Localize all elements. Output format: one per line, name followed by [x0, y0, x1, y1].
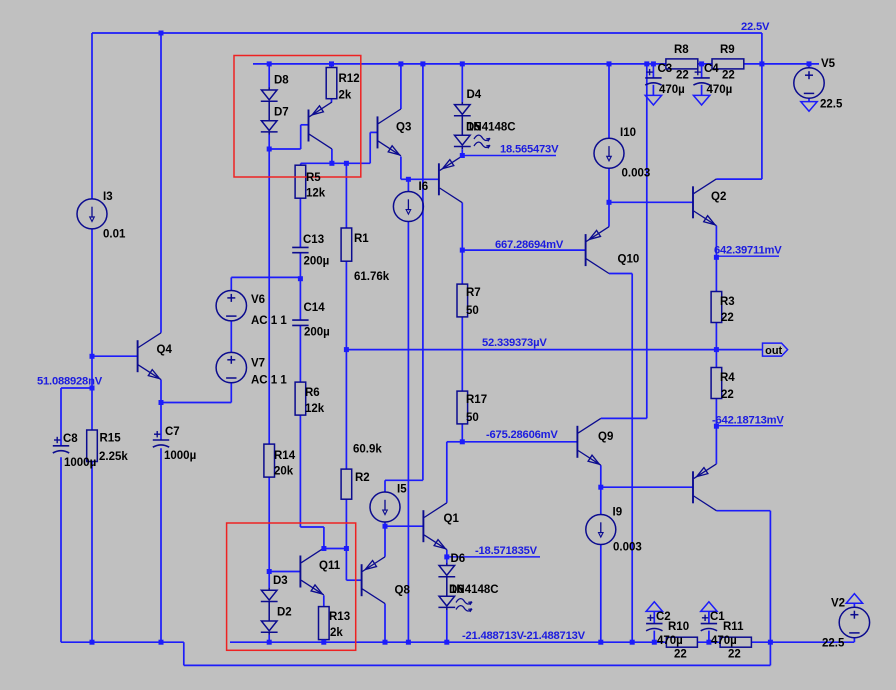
- svg-text:R1: R1: [354, 233, 369, 245]
- svg-text:51.088928nV: 51.088928nV: [37, 375, 103, 387]
- svg-text:I10: I10: [620, 127, 636, 139]
- svg-text:18.565473V: 18.565473V: [500, 144, 559, 156]
- svg-text:Q11: Q11: [319, 560, 341, 572]
- svg-text:R10: R10: [668, 621, 689, 633]
- svg-text:R13: R13: [329, 611, 350, 623]
- svg-text:667.28694mV: 667.28694mV: [495, 239, 564, 251]
- svg-text:R14: R14: [274, 450, 296, 462]
- svg-text:2.25k: 2.25k: [99, 451, 128, 463]
- svg-text:470µ: 470µ: [711, 635, 737, 647]
- svg-text:1000µ: 1000µ: [164, 450, 196, 462]
- svg-text:Q2: Q2: [711, 191, 726, 203]
- svg-text:D8: D8: [274, 75, 289, 87]
- svg-text:22: 22: [722, 70, 735, 82]
- svg-text:50: 50: [466, 412, 479, 424]
- svg-text:R3: R3: [720, 296, 735, 308]
- svg-text:C3: C3: [658, 63, 673, 75]
- svg-text:R6: R6: [305, 387, 320, 399]
- svg-text:22: 22: [728, 649, 741, 661]
- svg-text:R2: R2: [355, 472, 370, 484]
- svg-text:R5: R5: [306, 172, 321, 184]
- svg-text:22.5: 22.5: [822, 638, 845, 650]
- svg-text:-21.488713V: -21.488713V: [523, 630, 586, 642]
- svg-text:Q10: Q10: [618, 254, 640, 266]
- svg-text:12k: 12k: [306, 188, 326, 200]
- svg-text:I9: I9: [613, 507, 623, 519]
- svg-text:0.003: 0.003: [613, 542, 642, 554]
- svg-text:R9: R9: [720, 44, 735, 56]
- svg-text:Q9: Q9: [598, 431, 613, 443]
- svg-text:R7: R7: [466, 287, 481, 299]
- svg-text:61.76k: 61.76k: [354, 271, 390, 283]
- svg-text:-21.488713V: -21.488713V: [462, 630, 525, 642]
- svg-text:0.003: 0.003: [622, 168, 651, 180]
- svg-text:R4: R4: [720, 372, 735, 384]
- svg-text:470µ: 470µ: [657, 635, 683, 647]
- svg-text:R11: R11: [723, 621, 744, 633]
- svg-text:200µ: 200µ: [304, 256, 330, 268]
- svg-text:C13: C13: [303, 234, 324, 246]
- svg-text:20k: 20k: [274, 466, 294, 478]
- svg-text:22: 22: [676, 70, 689, 82]
- svg-text:R15: R15: [100, 433, 122, 445]
- svg-text:0.01: 0.01: [103, 229, 126, 241]
- svg-text:12k: 12k: [305, 403, 325, 415]
- svg-text:D2: D2: [277, 607, 292, 619]
- svg-text:V7: V7: [251, 358, 265, 370]
- svg-text:I5: I5: [397, 484, 407, 496]
- svg-text:2k: 2k: [339, 90, 352, 102]
- svg-text:22: 22: [721, 312, 734, 324]
- svg-text:R8: R8: [674, 44, 689, 56]
- svg-text:Q8: Q8: [395, 585, 411, 597]
- svg-text:I6: I6: [419, 181, 429, 193]
- svg-text:D5: D5: [466, 122, 481, 134]
- svg-text:22.5V: 22.5V: [741, 21, 770, 33]
- svg-text:Q4: Q4: [157, 344, 173, 356]
- svg-text:V6: V6: [251, 294, 265, 306]
- svg-text:470µ: 470µ: [659, 84, 685, 96]
- svg-text:-642.18713mV: -642.18713mV: [712, 415, 784, 427]
- svg-text:D6: D6: [451, 553, 466, 565]
- svg-text:C7: C7: [165, 426, 180, 438]
- svg-text:out: out: [765, 345, 782, 357]
- svg-text:50: 50: [466, 305, 479, 317]
- svg-text:D7: D7: [274, 107, 289, 119]
- svg-text:-18.571835V: -18.571835V: [475, 545, 538, 557]
- svg-text:Q3: Q3: [396, 122, 411, 134]
- svg-text:Q1: Q1: [444, 513, 460, 525]
- svg-text:642.39711mV: 642.39711mV: [714, 245, 782, 257]
- svg-text:-675.28606mV: -675.28606mV: [486, 429, 558, 441]
- svg-text:V5: V5: [821, 58, 836, 70]
- svg-text:2k: 2k: [330, 627, 343, 639]
- svg-text:60.9k: 60.9k: [353, 444, 382, 456]
- svg-text:V2: V2: [831, 598, 845, 610]
- svg-text:52.339373µV: 52.339373µV: [482, 337, 547, 349]
- svg-text:22: 22: [674, 649, 687, 661]
- svg-text:C4: C4: [704, 63, 719, 75]
- svg-text:D3: D3: [273, 575, 288, 587]
- svg-text:1000µ: 1000µ: [64, 457, 96, 469]
- svg-text:C14: C14: [304, 302, 326, 314]
- svg-text:R17: R17: [466, 394, 487, 406]
- svg-text:AC 1 1: AC 1 1: [251, 315, 287, 327]
- svg-text:D6: D6: [449, 584, 464, 596]
- svg-text:I3: I3: [103, 191, 113, 203]
- svg-text:R12: R12: [339, 73, 360, 85]
- svg-text:22.5: 22.5: [820, 99, 843, 111]
- svg-text:C8: C8: [63, 433, 78, 445]
- svg-text:AC 1 1: AC 1 1: [251, 375, 287, 387]
- svg-text:22: 22: [721, 389, 734, 401]
- svg-text:470µ: 470µ: [707, 84, 733, 96]
- svg-text:D4: D4: [467, 89, 482, 101]
- svg-text:200µ: 200µ: [304, 327, 330, 339]
